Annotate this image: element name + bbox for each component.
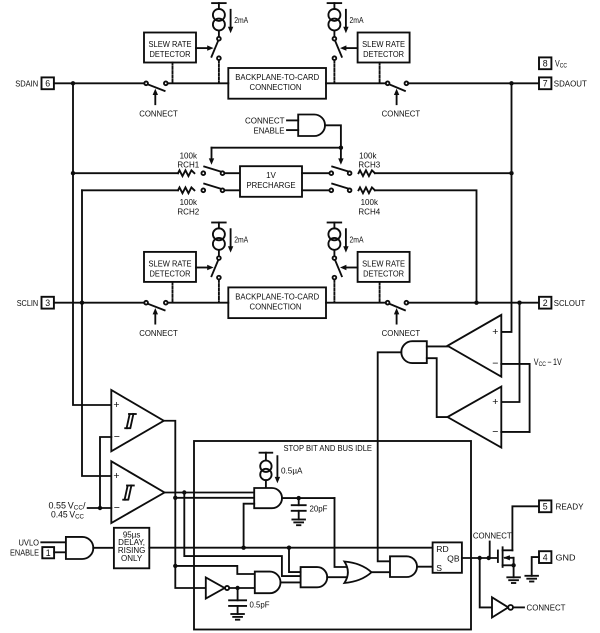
svg-text:RCH1: RCH1 bbox=[177, 161, 199, 170]
node threshold junction bbox=[98, 506, 102, 510]
node SCLIN junction bbox=[80, 301, 84, 305]
inverter U13 (CONNECT driver) bbox=[492, 597, 513, 617]
svg-text:STOP BIT AND BUS IDLE: STOP BIT AND BUS IDLE bbox=[284, 444, 373, 453]
comparator U3 (SCLOUT vs VCC-1V) bbox=[448, 387, 502, 448]
wire dashed detector to bus (card SCL) bbox=[379, 282, 381, 302]
svg-text:2mA: 2mA bbox=[350, 15, 364, 25]
wire dashed switch to bus (card SDA) bbox=[333, 60, 335, 82]
label RCH1 100k bbox=[177, 151, 199, 169]
switch RCH4 bbox=[329, 184, 351, 193]
svg-text:7: 7 bbox=[543, 79, 548, 89]
capacitor 0.5pF bbox=[229, 588, 246, 614]
wire SDAIN vertical to buffer U6 bbox=[73, 83, 111, 405]
svg-text:CONNECT: CONNECT bbox=[245, 116, 285, 126]
label 0.5uA bbox=[275, 456, 303, 483]
svg-text:2mA: 2mA bbox=[234, 235, 248, 245]
wire Q1 drain to READY pin bbox=[512, 506, 539, 550]
wire U9 output to OR U11 bbox=[327, 576, 348, 578]
pin 5 READY bbox=[539, 500, 584, 512]
svg-text:+: + bbox=[113, 399, 119, 411]
resistor RCH4 bbox=[359, 187, 375, 193]
wire SDAOUT bus to pin bbox=[408, 82, 539, 84]
wire SDAOUT sense vertical to comparator U2 bbox=[501, 83, 511, 332]
svg-text:ONLY: ONLY bbox=[121, 554, 143, 563]
current source 2mA (backplane SDA) bbox=[212, 3, 226, 37]
svg-text:SDAOUT: SDAOUT bbox=[554, 79, 587, 89]
svg-text:8: 8 bbox=[543, 59, 548, 69]
wire RCH2 switch to precharge box bbox=[224, 189, 240, 191]
svg-text:SLEW RATE: SLEW RATE bbox=[149, 259, 192, 269]
label RCH4 100k bbox=[358, 198, 380, 217]
node 0.5pF tap bbox=[235, 586, 239, 590]
label 2mA (backplane SDA) bbox=[228, 10, 249, 33]
svg-text:QB: QB bbox=[447, 553, 460, 563]
svg-text:SCLIN: SCLIN bbox=[17, 298, 39, 308]
svg-text:RD: RD bbox=[436, 544, 448, 554]
pin 6 SDAIN bbox=[15, 77, 54, 89]
svg-text:SLEW RATE: SLEW RATE bbox=[149, 39, 192, 49]
label 2mA (card SCL) bbox=[343, 229, 364, 252]
switch RCH1 bbox=[201, 167, 224, 176]
node RCH1 rail junction bbox=[71, 171, 75, 175]
label 0.55VCC/0.45VCC bbox=[49, 500, 87, 520]
wire U13 output bbox=[513, 606, 524, 608]
schmitt buffer U7 (SCL) bbox=[111, 461, 164, 523]
svg-text:CONNECT: CONNECT bbox=[139, 328, 178, 338]
wire U6 output (SDA signal) bbox=[164, 421, 206, 588]
label ENABLE (U1 input) bbox=[254, 125, 299, 135]
pin 1 ENABLE bbox=[10, 547, 66, 558]
wire U7 output (SCL signal) bbox=[165, 492, 255, 494]
stop bit and bus idle box bbox=[194, 441, 471, 630]
wire dashed switch to bus (card SCL) bbox=[333, 280, 335, 302]
label RCH3 100k bbox=[358, 151, 380, 169]
backplane-to-card connection box (SDA) bbox=[228, 68, 326, 99]
svg-text:RCH3: RCH3 bbox=[358, 161, 380, 170]
backplane-to-card connection box (SCL) bbox=[228, 287, 326, 318]
node Q1 source/body bbox=[511, 563, 515, 567]
wire SCLIN bus middle segment bbox=[168, 302, 229, 304]
wire threshold reference input bbox=[88, 507, 112, 509]
svg-text:1: 1 bbox=[46, 548, 51, 558]
current source 2mA (card SDA) bbox=[328, 3, 342, 37]
current source 2mA (backplane SCL) bbox=[212, 223, 226, 257]
wire U3 output to U4 bbox=[427, 358, 448, 417]
svg-text:100k: 100k bbox=[359, 151, 377, 160]
wire U8 output to U9 bbox=[281, 581, 301, 583]
svg-text:1V: 1V bbox=[266, 171, 276, 180]
svg-text:RCH2: RCH2 bbox=[177, 208, 199, 217]
wire SDAIN bus middle segment bbox=[168, 82, 229, 84]
svg-text:+: + bbox=[492, 326, 498, 338]
svg-text:BACKPLANE-TO-CARD: BACKPLANE-TO-CARD bbox=[235, 292, 319, 301]
label UVLO bbox=[19, 539, 66, 548]
switch 2mA-to-bus (card SCL) bbox=[333, 256, 342, 279]
node SDA signal tap to U5 bbox=[173, 496, 177, 500]
switch RCH2 bbox=[201, 184, 224, 193]
arrow control to RCH3 switch bbox=[338, 148, 343, 165]
arrow CONNECT (backplane SDA) bbox=[153, 89, 158, 105]
pin 2 SCLOUT bbox=[539, 297, 585, 309]
svg-text:−: − bbox=[114, 431, 120, 443]
net VCC-1V reference bbox=[501, 364, 529, 432]
current source 2mA (card SCL) bbox=[328, 223, 342, 257]
wire RCH2 rail left bbox=[82, 189, 178, 191]
arrow detector to switch (backplane SDA) bbox=[196, 45, 214, 50]
inverter U10 bbox=[206, 578, 229, 599]
svg-text:100k: 100k bbox=[361, 198, 379, 207]
label CONNECT (U1 input) bbox=[245, 116, 298, 126]
wire SCLOUT sense vertical to comparator U3 bbox=[501, 303, 519, 402]
svg-text:DETECTOR: DETECTOR bbox=[363, 49, 404, 59]
delay box 95us bbox=[114, 528, 149, 569]
arrow detector to switch (card SDA) bbox=[340, 45, 358, 50]
AND gate U8 (edge detect) bbox=[255, 572, 281, 594]
label 2mA (card SDA) bbox=[343, 10, 364, 33]
ground (Q1 source) bbox=[507, 576, 520, 578]
svg-text:CONNECT: CONNECT bbox=[382, 109, 421, 119]
wire SCLIN bus left segment bbox=[54, 302, 144, 304]
pin 8 VCC bbox=[539, 57, 551, 69]
1V precharge box bbox=[240, 166, 302, 197]
arrow CONNECT (backplane SCL) bbox=[153, 308, 158, 324]
wire dashed switch to bus (backplane SCL) bbox=[218, 280, 220, 302]
node QB to inverter bbox=[478, 556, 482, 560]
svg-text:−: − bbox=[114, 502, 120, 514]
svg-text:GND: GND bbox=[556, 553, 576, 563]
wire dashed detector to bus (backplane SDA) bbox=[172, 63, 174, 83]
svg-text:RCH4: RCH4 bbox=[358, 208, 380, 217]
wire dashed detector to bus (backplane SCL) bbox=[172, 282, 174, 302]
node RCH4/SCLOUT junction bbox=[474, 301, 478, 305]
AND gate U12 (set) bbox=[390, 556, 417, 577]
wire precharge box to RCH4 switch bbox=[302, 189, 329, 191]
wire delay rail to U9 bbox=[289, 548, 301, 572]
wire U11 output to U12 bbox=[372, 571, 391, 573]
svg-text:UVLO: UVLO bbox=[19, 539, 40, 548]
wire precharge box to RCH3 switch bbox=[302, 172, 329, 174]
svg-text:CONNECTION: CONNECTION bbox=[250, 83, 302, 92]
wire SCL bus card segment bbox=[326, 302, 386, 304]
node 20pF tap bbox=[297, 496, 301, 500]
arrow detector to switch (card SCL) bbox=[340, 265, 358, 270]
svg-text:READY: READY bbox=[556, 502, 584, 512]
svg-text:−: − bbox=[492, 358, 498, 370]
svg-text:SDAIN: SDAIN bbox=[15, 79, 38, 89]
pin 7 SDAOUT bbox=[539, 77, 587, 89]
latch RD/S bbox=[433, 542, 462, 573]
label RCH2 100k bbox=[177, 198, 199, 217]
wire U1 output to precharge switch control bbox=[325, 125, 341, 147]
svg-text:SCLOUT: SCLOUT bbox=[554, 298, 586, 308]
wire SDAIN bus left segment bbox=[54, 82, 144, 84]
node SDA signal tap to U8 bbox=[173, 564, 177, 568]
node precharge control junction bbox=[339, 146, 343, 150]
switch CONNECT (card SCL bus) bbox=[386, 301, 409, 310]
svg-text:100k: 100k bbox=[180, 198, 198, 207]
resistor RCH2 bbox=[178, 187, 194, 193]
wire U14 output to delay bbox=[93, 547, 114, 549]
slew rate detector (backplane SCL) bbox=[144, 252, 196, 282]
svg-text:ENABLE: ENABLE bbox=[10, 549, 39, 558]
svg-text:100k: 100k bbox=[180, 151, 198, 160]
svg-text:ENABLE: ENABLE bbox=[254, 125, 285, 135]
wire SCL tap to AND U9 bbox=[184, 493, 300, 577]
svg-text:0.5µA: 0.5µA bbox=[281, 465, 303, 475]
svg-text:S: S bbox=[436, 563, 442, 573]
svg-text:DETECTOR: DETECTOR bbox=[363, 269, 404, 279]
svg-text:2mA: 2mA bbox=[350, 235, 364, 245]
svg-text:+: + bbox=[492, 396, 498, 408]
wire U10 output to U8 bbox=[229, 587, 254, 589]
wire U2 minus input to reference bbox=[501, 363, 529, 365]
ground (20pF) bbox=[292, 519, 305, 521]
node QB connect stub bbox=[487, 556, 491, 560]
switch CONNECT (backplane SDA bus) bbox=[144, 81, 167, 90]
wire SDA tap to AND U8 bbox=[175, 566, 255, 574]
wire RCH3 rail to SDAOUT vertical bbox=[375, 172, 512, 174]
switch CONNECT (backplane SCL bus) bbox=[144, 301, 167, 310]
resistor RCH3 bbox=[359, 170, 375, 176]
svg-text:+: + bbox=[113, 470, 119, 482]
node delay rail tap U9 bbox=[287, 546, 291, 550]
wire U12 output to latch S bbox=[417, 566, 433, 568]
svg-text:CONNECTION: CONNECTION bbox=[250, 302, 302, 311]
wire RCH1 rail left bbox=[73, 172, 178, 174]
switch CONNECT (card SDA bus) bbox=[386, 81, 409, 90]
switch 2mA-to-bus (backplane SCL) bbox=[212, 256, 221, 279]
current source 0.5uA bbox=[260, 453, 273, 488]
wire SCLOUT bus to pin bbox=[408, 302, 539, 304]
svg-text:BACKPLANE-TO-CARD: BACKPLANE-TO-CARD bbox=[235, 73, 319, 82]
node SDAIN junction bbox=[71, 81, 75, 85]
svg-text:VCC − 1V: VCC − 1V bbox=[534, 357, 562, 368]
ground (GND pin) bbox=[525, 575, 538, 577]
wire QB output bbox=[462, 557, 497, 559]
AND gate U14 (UVLO AND ENABLE) bbox=[66, 537, 93, 559]
svg-text:5: 5 bbox=[543, 502, 548, 512]
slew rate detector (card SCL) bbox=[358, 252, 410, 282]
node RCH3/SDAOUT junction bbox=[509, 171, 513, 175]
AND gate U9 bbox=[301, 567, 328, 587]
svg-text:SLEW RATE: SLEW RATE bbox=[362, 259, 405, 269]
pin 4 GND bbox=[539, 551, 576, 563]
svg-text:CONNECT: CONNECT bbox=[527, 603, 566, 613]
svg-text:SLEW RATE: SLEW RATE bbox=[362, 39, 405, 49]
schmitt buffer U6 (SDA) bbox=[111, 390, 164, 451]
arrow control to RCH1 switch bbox=[209, 148, 214, 165]
wire U5 to OR gate U11 bbox=[335, 498, 349, 567]
svg-text:CONNECT: CONNECT bbox=[473, 531, 512, 541]
svg-text:3: 3 bbox=[45, 298, 50, 308]
svg-text:2mA: 2mA bbox=[234, 15, 248, 25]
node SDAOUT sense tap bbox=[509, 81, 513, 85]
wire RCH4 rail to SCLOUT bus bbox=[375, 190, 477, 302]
switch 2mA-to-bus (card SDA) bbox=[333, 37, 342, 60]
wire RCH1 switch to precharge box bbox=[224, 172, 240, 174]
svg-text:CONNECT: CONNECT bbox=[382, 328, 421, 338]
svg-text:0.5pF: 0.5pF bbox=[250, 600, 270, 610]
node SCL signal tap bbox=[182, 490, 186, 494]
wire delay rail to U5 bbox=[244, 504, 255, 548]
label CONNECT (QB net) bbox=[473, 531, 512, 558]
wire U4 output to final AND U12 bbox=[378, 352, 402, 561]
arrow detector to switch (backplane SCL) bbox=[196, 265, 214, 270]
wire SDA tap to AND U5 bbox=[175, 497, 254, 499]
AND gate U1 (CONNECT AND ENABLE) bbox=[298, 115, 325, 137]
wire U6 minus input bbox=[100, 437, 111, 508]
switch 2mA-to-bus (backplane SDA) bbox=[212, 37, 221, 60]
node delay rail tap U5 bbox=[241, 546, 245, 550]
capacitor 20pF bbox=[292, 498, 306, 519]
node SCLOUT sense tap bbox=[517, 301, 521, 305]
wire delay rail bbox=[149, 547, 432, 549]
wire SDA bus card segment bbox=[326, 82, 386, 84]
OR gate U11 bbox=[344, 562, 371, 584]
pin 3 SCLIN bbox=[17, 297, 54, 309]
wire GND pin to ground bbox=[532, 557, 539, 576]
wire dashed switch to bus (backplane SDA) bbox=[218, 60, 220, 82]
svg-text:DETECTOR: DETECTOR bbox=[150, 269, 191, 279]
resistor RCH1 bbox=[178, 170, 194, 176]
slew rate detector (backplane SDA) bbox=[144, 33, 196, 63]
ground (0.5pF) bbox=[231, 613, 244, 615]
svg-text:CONNECT: CONNECT bbox=[139, 109, 178, 119]
wire U5 output bbox=[282, 497, 335, 499]
wire dashed detector to bus (card SDA) bbox=[379, 63, 381, 83]
wire U2 output to U4 bbox=[427, 345, 448, 347]
comparator U2 (SDAOUT vs VCC-1V) bbox=[448, 315, 502, 377]
arrow CONNECT (card SCL) bbox=[394, 308, 399, 324]
svg-text:−: − bbox=[492, 426, 498, 438]
svg-text:4: 4 bbox=[543, 552, 548, 562]
label 2mA (backplane SCL) bbox=[228, 229, 249, 252]
switch RCH3 bbox=[329, 167, 351, 176]
AND gate U5 (stop bit) bbox=[254, 488, 282, 508]
wire QB to inverter U13 bbox=[480, 558, 492, 607]
svg-text:2: 2 bbox=[543, 298, 548, 308]
slew rate detector (card SDA) bbox=[358, 33, 410, 63]
svg-text:DETECTOR: DETECTOR bbox=[150, 49, 191, 59]
svg-text:PRECHARGE: PRECHARGE bbox=[247, 181, 296, 190]
wire control to left precharge switch bbox=[212, 147, 341, 149]
svg-text:20pF: 20pF bbox=[310, 504, 328, 514]
transistor Q1 (ready pulldown) bbox=[498, 547, 514, 577]
arrow CONNECT (card SDA) bbox=[394, 89, 399, 105]
wire SCLIN vertical (RCH2 / buffer U7) bbox=[82, 190, 111, 476]
AND gate U4 (bus idle detect) bbox=[401, 341, 426, 363]
svg-text:6: 6 bbox=[45, 79, 50, 89]
